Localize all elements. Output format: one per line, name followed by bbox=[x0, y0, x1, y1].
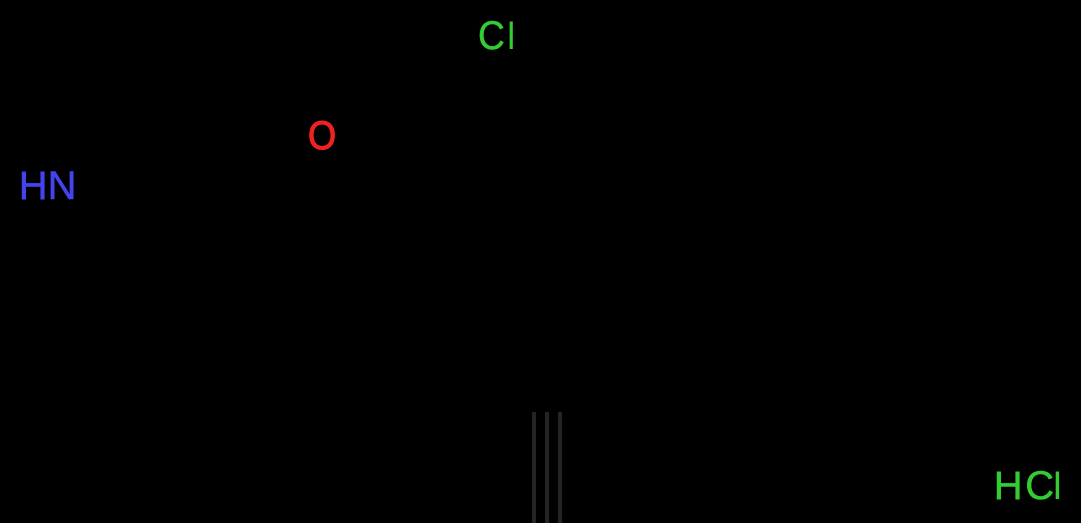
salt label HCl (hydrochloride) bbox=[994, 466, 1062, 506]
background texture block bbox=[532, 412, 566, 523]
atom label O (ether oxygen) bbox=[308, 116, 336, 156]
atom label HN (piperidine nitrogen) bbox=[19, 166, 77, 206]
atom label Cl (aryl chlorine) bbox=[478, 16, 518, 56]
